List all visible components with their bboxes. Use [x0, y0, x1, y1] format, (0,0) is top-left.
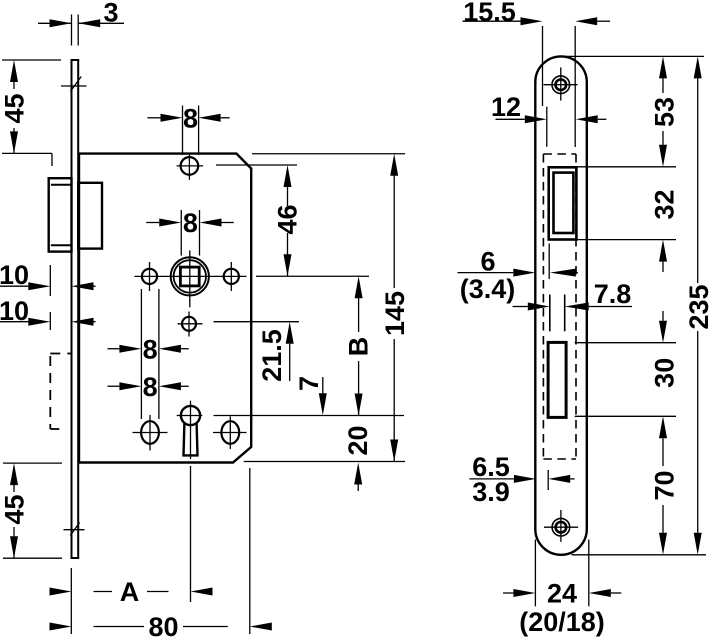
svg-text:45: 45 — [0, 93, 30, 123]
follower (spindle hub) — [171, 250, 209, 307]
svg-text:46: 46 — [272, 204, 302, 234]
svg-text:32: 32 — [649, 189, 679, 219]
svg-text:53: 53 — [650, 97, 680, 127]
svg-text:8: 8 — [143, 372, 158, 402]
faceplate break mark top — [61, 77, 87, 92]
svg-text:70: 70 — [649, 470, 679, 500]
svg-text:15.5: 15.5 — [463, 0, 516, 27]
dimension 15.5 — [463, 0, 611, 147]
right hole beside follower — [224, 262, 239, 291]
dimension 30 — [575, 311, 680, 416]
dimension 46 — [216, 165, 302, 276]
left hole beside follower — [142, 262, 157, 291]
svg-text:235: 235 — [684, 284, 711, 329]
latchbolt tail inside case — [78, 183, 102, 249]
small hole below follower — [178, 312, 203, 337]
dimension 10 latch projection — [0, 260, 96, 296]
faceplate side view (left view) — [71, 60, 80, 558]
dimension 6.5 / 3.9 — [469, 452, 574, 507]
svg-text:80: 80 — [148, 612, 178, 640]
dimension 7 — [294, 376, 327, 415]
dimension 70 — [649, 416, 679, 555]
follower centerline extension — [256, 275, 369, 277]
dimension 8 follower square — [146, 208, 234, 255]
dimension 7.8 — [513, 279, 633, 311]
plate top extension line — [562, 55, 704, 57]
bottom screw hole — [544, 510, 578, 542]
svg-text:12: 12 — [491, 92, 521, 122]
dimension 24 — [503, 540, 621, 609]
dimension 8 top hole — [147, 103, 229, 155]
svg-text:24: 24 — [547, 579, 577, 609]
svg-text:3.9: 3.9 — [472, 477, 510, 507]
left oval hole — [133, 415, 168, 451]
dimension 80 — [50, 468, 272, 640]
deadbolt cutout — [548, 342, 566, 417]
latch cutout outer — [549, 167, 577, 239]
svg-text:21.5: 21.5 — [257, 329, 287, 382]
latch face extension line — [548, 244, 550, 280]
keyhole centerline extension — [214, 415, 405, 417]
dimension 235 — [684, 56, 711, 554]
svg-text:(3.4): (3.4) — [460, 274, 516, 304]
dimension 45 top — [0, 60, 61, 166]
svg-text:30: 30 — [649, 358, 679, 388]
dimension 21.5 — [257, 322, 294, 382]
svg-text:B: B — [343, 337, 373, 357]
label (20/18) — [519, 607, 605, 637]
dimension 8 left hole — [108, 289, 189, 419]
dimension 145 — [244, 154, 410, 462]
svg-text:45: 45 — [0, 494, 30, 524]
svg-text:A: A — [120, 577, 140, 607]
svg-text:20: 20 — [343, 425, 373, 455]
dimension 10 deadbolt projection — [0, 296, 96, 330]
svg-text:7.8: 7.8 — [594, 279, 632, 309]
svg-text:7: 7 — [294, 376, 324, 391]
dimension A — [50, 466, 213, 634]
top fixing hole — [177, 154, 204, 180]
svg-text:8: 8 — [143, 334, 158, 364]
dimension 8 left oval — [108, 372, 189, 402]
keyhole — [181, 406, 200, 456]
lock case outline — [79, 154, 251, 463]
dimension 20 — [343, 425, 373, 491]
faceplate break mark bottom — [64, 523, 85, 536]
top screw hole — [544, 67, 578, 100]
deadbolt thrown outline (dashed) — [50, 354, 71, 430]
dimension B — [343, 276, 373, 415]
right oval hole — [213, 416, 247, 449]
plate bottom extension line — [572, 554, 706, 556]
keyhole centerlines — [177, 401, 203, 459]
small hole centerline extension — [214, 321, 300, 323]
latch cutout inner (latchbolt face) — [554, 173, 574, 233]
lock case hidden outline (dashed) — [543, 154, 576, 459]
svg-text:(20/18): (20/18) — [519, 607, 605, 637]
dimension 53 — [577, 56, 680, 166]
dimension 32 — [577, 189, 679, 272]
faceplate front view outline — [535, 56, 587, 554]
svg-text:8: 8 — [183, 103, 198, 133]
dimension 45 bottom — [0, 463, 62, 558]
latchbolt head (protruding) — [49, 178, 72, 251]
dimension 3 (faceplate thickness) — [38, 0, 124, 46]
dimension 6 (3.4) — [458, 247, 579, 305]
svg-text:8: 8 — [183, 208, 198, 238]
dimension 12 — [491, 92, 606, 147]
key slot edges — [550, 295, 565, 332]
svg-text:145: 145 — [380, 291, 410, 336]
hub centerline horizontal — [135, 275, 247, 277]
